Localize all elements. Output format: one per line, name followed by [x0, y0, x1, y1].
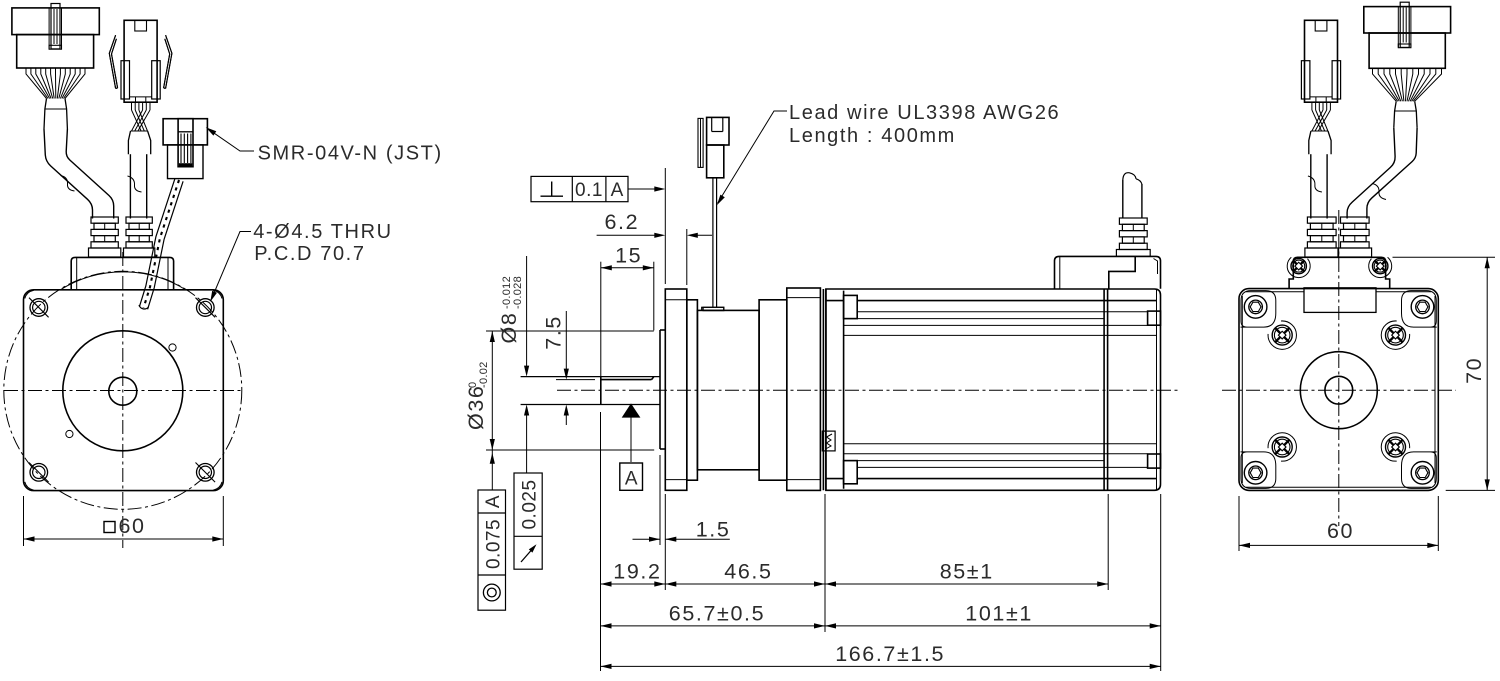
svg-text:4-Ø4.5 THRU: 4-Ø4.5 THRU — [253, 221, 393, 243]
svg-text:46.5: 46.5 — [724, 560, 772, 584]
svg-text:1.5: 1.5 — [696, 518, 731, 542]
svg-text:0.025: 0.025 — [520, 479, 541, 529]
svg-text:19.2: 19.2 — [613, 560, 661, 584]
svg-text:101±1: 101±1 — [965, 602, 1033, 626]
svg-text:P.C.D 70.7: P.C.D 70.7 — [254, 243, 365, 265]
svg-text:60: 60 — [119, 514, 146, 538]
svg-text:166.7±1.5: 166.7±1.5 — [835, 642, 945, 666]
svg-text:7.5: 7.5 — [542, 315, 566, 350]
svg-text:6.2: 6.2 — [605, 210, 640, 234]
svg-text:A: A — [611, 180, 624, 201]
svg-text:Lead wire UL3398 AWG26: Lead wire UL3398 AWG26 — [789, 102, 1060, 124]
svg-text:Length : 400mm: Length : 400mm — [789, 125, 956, 147]
svg-text:SMR-04V-N (JST): SMR-04V-N (JST) — [258, 143, 443, 165]
svg-text:A: A — [625, 469, 638, 490]
svg-text:A: A — [483, 495, 504, 508]
svg-text:65.7±0.5: 65.7±0.5 — [669, 602, 765, 626]
svg-text:85±1: 85±1 — [940, 560, 994, 584]
svg-text:15: 15 — [615, 244, 642, 268]
svg-text:60: 60 — [1327, 519, 1354, 543]
svg-text:0.075: 0.075 — [484, 519, 505, 569]
svg-text:70: 70 — [1462, 357, 1486, 384]
svg-text:Ø8: Ø8 — [497, 312, 521, 344]
svg-text:Ø36: Ø36 — [464, 385, 488, 430]
svg-text:-0.028: -0.028 — [512, 276, 524, 309]
svg-text:0.1: 0.1 — [575, 180, 603, 201]
svg-text:-0.02: -0.02 — [478, 361, 490, 388]
